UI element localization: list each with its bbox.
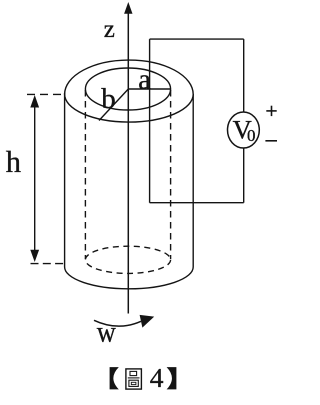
wire: circuit bottom [150,202,244,204]
svg-text:0: 0 [247,126,256,145]
h dimension line [34,100,36,256]
caption bracket right [167,367,177,389]
outer cylinder top ellipse [65,60,194,122]
svg-text:b: b [101,83,116,115]
caption character tu middle stroke [128,377,140,379]
caption character tu bottom box [129,380,138,386]
wire: outer wall right [192,94,194,267]
plus terminal [266,106,276,116]
svg-text:h: h [6,145,21,179]
h extension dash top [27,93,63,95]
wire: circuit right upper [243,39,245,112]
outer cylinder bottom arc [65,267,194,289]
source V0 circle [228,112,260,148]
wire: outer wall left [64,93,66,267]
z axis arrowhead [124,2,132,14]
h arrow up [30,95,39,108]
h extension dash bottom [31,263,65,265]
wire: circuit left [149,39,151,203]
wire: circuit top [150,38,244,40]
caption character tu bottom inner box [131,382,136,384]
radius a line [128,88,170,90]
inner wall right hidden [170,90,172,259]
wire: circuit right lower [243,148,245,203]
radius b line [99,89,128,121]
svg-text:w: w [97,316,117,349]
minus terminal [265,140,277,142]
caption bracket left [110,367,119,389]
caption character tu outer box [126,369,141,389]
h arrow down [30,250,39,262]
rotation arrow arc [94,320,141,326]
rotation arrowhead [140,315,155,328]
caption character tu top small box [130,371,137,375]
svg-text:4: 4 [150,362,164,393]
svg-text:z: z [104,16,115,43]
inner cylinder bottom hidden ellipse [85,246,170,273]
svg-text:a: a [138,63,151,96]
inner cylinder top ellipse [85,68,170,110]
inner wall left hidden [84,90,86,259]
z axis line [127,12,129,314]
